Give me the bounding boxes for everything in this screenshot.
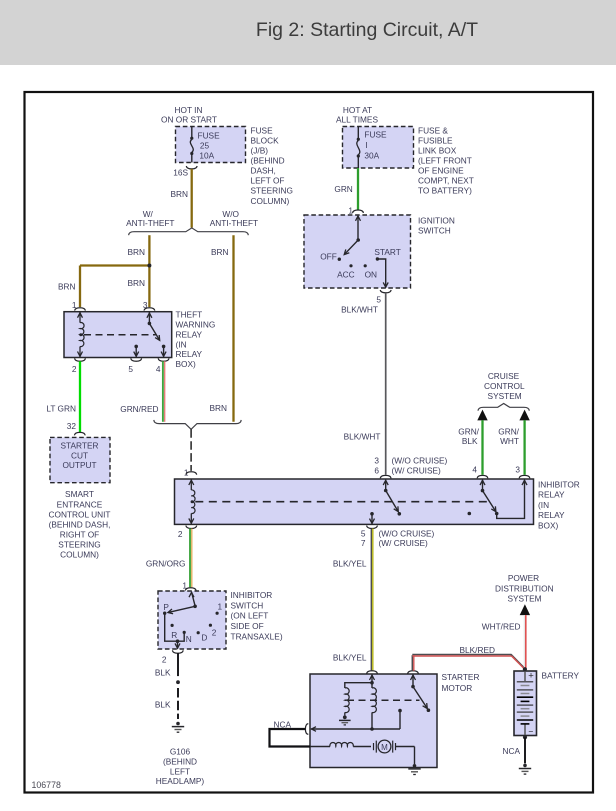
svg-text:IGNITION: IGNITION	[418, 215, 455, 225]
svg-text:BRN: BRN	[127, 278, 145, 288]
svg-text:GRN/: GRN/	[458, 427, 479, 437]
svg-text:(BEHIND: (BEHIND	[163, 756, 197, 766]
svg-text:3: 3	[374, 456, 379, 466]
svg-text:2: 2	[72, 364, 77, 374]
svg-text:25: 25	[200, 141, 210, 151]
svg-text:ANTI-THEFT: ANTI-THEFT	[210, 218, 258, 228]
svg-text:LEFT: LEFT	[170, 766, 190, 776]
svg-text:GRN: GRN	[334, 184, 352, 194]
svg-text:ANTI-THEFT: ANTI-THEFT	[126, 218, 174, 228]
svg-text:(W/ CRUISE): (W/ CRUISE)	[392, 465, 442, 475]
svg-text:ON OR START: ON OR START	[161, 114, 217, 124]
svg-text:OFF: OFF	[320, 252, 337, 262]
svg-text:10A: 10A	[199, 151, 214, 161]
svg-text:BLK/WHT: BLK/WHT	[344, 431, 381, 441]
svg-text:2: 2	[178, 529, 183, 539]
svg-text:MOTOR: MOTOR	[442, 683, 473, 693]
svg-text:STARTER: STARTER	[61, 441, 99, 451]
svg-text:RIGHT OF: RIGHT OF	[60, 529, 100, 539]
svg-text:SMART: SMART	[65, 489, 94, 499]
svg-text:SWITCH: SWITCH	[231, 600, 264, 610]
svg-text:BATTERY: BATTERY	[542, 670, 580, 680]
svg-text:LEFT OF: LEFT OF	[251, 176, 285, 186]
svg-text:CONTROL UNIT: CONTROL UNIT	[49, 509, 111, 519]
svg-text:(BEHIND: (BEHIND	[251, 156, 285, 166]
svg-text:3: 3	[515, 465, 520, 475]
svg-text:BLOCK: BLOCK	[251, 135, 280, 145]
svg-text:I: I	[365, 140, 367, 150]
svg-text:(W/ CRUISE): (W/ CRUISE)	[379, 538, 429, 548]
svg-text:6: 6	[374, 465, 379, 475]
svg-text:D: D	[201, 633, 207, 643]
svg-text:4: 4	[156, 364, 161, 374]
svg-text:BLK: BLK	[155, 699, 171, 709]
svg-text:FUSE: FUSE	[364, 130, 387, 140]
svg-text:TO BATTERY): TO BATTERY)	[418, 186, 472, 196]
svg-text:SYSTEM: SYSTEM	[507, 594, 541, 604]
svg-text:BRN: BRN	[211, 247, 229, 257]
svg-text:ENTRANCE: ENTRANCE	[57, 499, 103, 509]
svg-text:SIDE OF: SIDE OF	[231, 621, 264, 631]
svg-text:BLK/YEL: BLK/YEL	[333, 652, 367, 662]
svg-text:30A: 30A	[364, 151, 379, 161]
svg-text:−: −	[528, 726, 533, 736]
svg-text:(LEFT FRONT: (LEFT FRONT	[418, 156, 472, 166]
svg-text:BLK/WHT: BLK/WHT	[341, 304, 378, 314]
svg-text:BOX): BOX)	[538, 520, 559, 530]
svg-text:+: +	[528, 670, 534, 681]
svg-text:G106: G106	[170, 747, 191, 757]
svg-text:THEFT: THEFT	[176, 310, 203, 320]
svg-text:N: N	[186, 634, 192, 644]
svg-text:STEERING: STEERING	[58, 540, 100, 550]
svg-text:P: P	[163, 602, 169, 612]
svg-text:GRN/RED: GRN/RED	[120, 404, 158, 414]
svg-text:2: 2	[212, 628, 217, 638]
svg-text:CRUISE: CRUISE	[488, 371, 520, 381]
svg-text:BLK: BLK	[462, 436, 478, 446]
svg-text:LINK BOX: LINK BOX	[418, 146, 457, 156]
svg-text:(IN: (IN	[176, 339, 187, 349]
svg-text:POWER: POWER	[508, 573, 539, 583]
svg-text:7: 7	[361, 538, 366, 548]
svg-text:FUSE: FUSE	[251, 125, 274, 135]
svg-text:RELAY: RELAY	[538, 490, 565, 500]
svg-text:OF ENGINE: OF ENGINE	[418, 166, 464, 176]
svg-text:DISTRIBUTION: DISTRIBUTION	[495, 583, 554, 593]
svg-text:STEERING: STEERING	[251, 186, 293, 196]
svg-text:BRN: BRN	[170, 189, 188, 199]
svg-text:START: START	[374, 247, 400, 257]
svg-text:COMPT, NEXT: COMPT, NEXT	[418, 176, 474, 186]
svg-text:(W/O CRUISE): (W/O CRUISE)	[379, 528, 435, 538]
svg-text:CUT: CUT	[71, 450, 88, 460]
svg-text:5: 5	[128, 364, 133, 374]
svg-text:106778: 106778	[32, 780, 61, 790]
svg-text:BRN: BRN	[209, 403, 227, 413]
svg-text:WHT: WHT	[500, 436, 519, 446]
svg-text:M: M	[381, 743, 388, 752]
svg-text:(IN: (IN	[538, 500, 549, 510]
svg-text:SYSTEM: SYSTEM	[488, 391, 522, 401]
svg-text:RELAY: RELAY	[538, 510, 565, 520]
svg-text:GRN/ORG: GRN/ORG	[146, 558, 186, 568]
svg-text:FUSE &: FUSE &	[418, 125, 448, 135]
svg-text:16S: 16S	[173, 168, 188, 178]
svg-text:HEADLAMP): HEADLAMP)	[156, 776, 205, 786]
svg-text:5: 5	[361, 529, 366, 539]
svg-text:LT GRN: LT GRN	[46, 404, 76, 414]
svg-text:FUSIBLE: FUSIBLE	[418, 135, 453, 145]
svg-text:(ON LEFT: (ON LEFT	[231, 611, 269, 621]
svg-text:GRN/: GRN/	[498, 427, 519, 437]
svg-text:OUTPUT: OUTPUT	[62, 460, 96, 470]
svg-text:4: 4	[472, 465, 477, 475]
svg-text:COLUMN): COLUMN)	[251, 196, 290, 206]
svg-text:RELAY: RELAY	[176, 349, 203, 359]
svg-text:BLK: BLK	[155, 667, 171, 677]
svg-text:DASH,: DASH,	[251, 166, 276, 176]
svg-text:SWITCH: SWITCH	[418, 226, 451, 236]
svg-text:STARTER: STARTER	[442, 672, 480, 682]
svg-text:Fig 2: Starting Circuit, A/T: Fig 2: Starting Circuit, A/T	[256, 19, 478, 41]
svg-text:INHIBITOR: INHIBITOR	[538, 480, 580, 490]
svg-text:ON: ON	[365, 269, 377, 279]
svg-text:5: 5	[376, 294, 381, 304]
svg-text:ALL TIMES: ALL TIMES	[336, 114, 378, 124]
svg-text:NCA: NCA	[502, 746, 520, 756]
svg-text:BRN: BRN	[127, 247, 145, 257]
svg-text:CONTROL: CONTROL	[484, 381, 525, 391]
svg-text:BLK/YEL: BLK/YEL	[333, 558, 367, 568]
svg-text:TRANSAXLE): TRANSAXLE)	[231, 631, 283, 641]
svg-text:2: 2	[162, 655, 167, 665]
svg-text:RELAY: RELAY	[176, 329, 203, 339]
svg-text:1: 1	[217, 602, 222, 612]
svg-text:(W/O CRUISE): (W/O CRUISE)	[392, 456, 448, 466]
svg-text:COLUMN): COLUMN)	[60, 550, 99, 560]
svg-text:BRN: BRN	[58, 281, 76, 291]
svg-text:FUSE: FUSE	[198, 130, 221, 140]
svg-text:BOX): BOX)	[176, 359, 197, 369]
svg-text:R: R	[171, 630, 177, 640]
svg-text:32: 32	[67, 421, 77, 431]
svg-text:WHT/RED: WHT/RED	[482, 622, 521, 632]
svg-text:INHIBITOR: INHIBITOR	[231, 590, 273, 600]
svg-text:WARNING: WARNING	[176, 320, 216, 330]
svg-text:BLK/RED: BLK/RED	[460, 645, 496, 655]
svg-text:(BEHIND DASH,: (BEHIND DASH,	[49, 519, 111, 529]
svg-text:ACC: ACC	[337, 269, 355, 279]
svg-text:1: 1	[348, 206, 353, 216]
svg-text:(J/B): (J/B)	[251, 146, 269, 156]
